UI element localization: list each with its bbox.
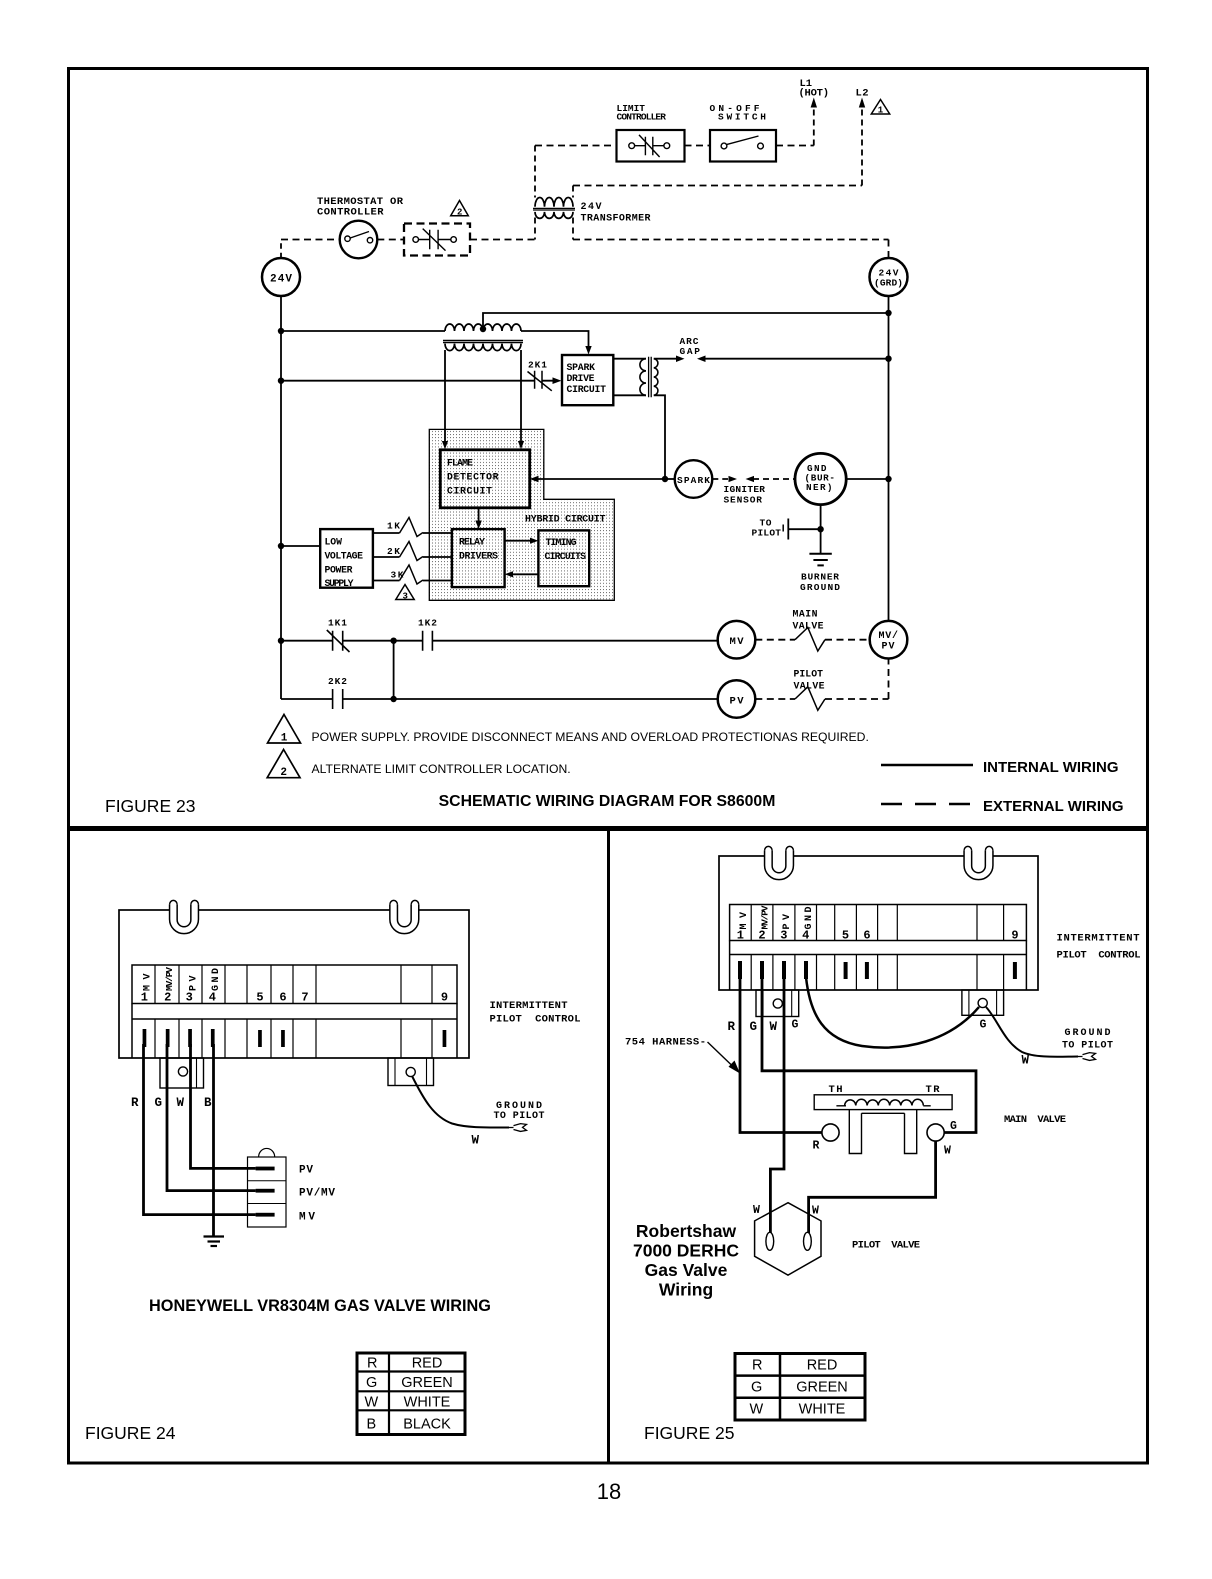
component: intermittent pilot control module body (fig25): [719, 856, 1038, 990]
wire: dashed horizontal L2 to transformer primary right: [573, 185, 862, 187]
wire: T2 secondary right drop into flame detector with arrow: [520, 350, 522, 443]
component: LIMIT CONTROLLER box with NC contact: [617, 130, 685, 162]
component: LOW VOLTAGE POWER SUPPLY box: [320, 529, 373, 588]
table: wire color legend (fig24): [357, 1353, 465, 1435]
svg-text:PILOT CONTROL: PILOT CONTROL: [490, 1014, 581, 1026]
wire: left rail to LV supply: [281, 545, 320, 547]
ground: burner ground symbol: [809, 553, 831, 555]
svg-text:FLAME: FLAME: [447, 458, 473, 469]
svg-text:PILOT VALVE: PILOT VALVE: [852, 1240, 920, 1252]
terminal: GND (BURNER) circle: [795, 453, 846, 504]
wire: 1K line LV supply to relay drivers: [373, 532, 452, 534]
svg-text:G: G: [155, 1096, 163, 1110]
wire: L2 lead dashed vertical with up arrow down to transformer line: [861, 105, 863, 186]
svg-text:7: 7: [301, 991, 308, 1005]
wire: arc gap right side to right rail: [697, 356, 706, 363]
node junction dot right rail top feed: [885, 310, 891, 316]
svg-text:WHITE: WHITE: [404, 1395, 451, 1411]
label MAIN VALVE: [793, 609, 824, 632]
wire: GND terminal4 curved lead to right foot (fig25): [806, 977, 979, 1048]
svg-text:PILOT: PILOT: [794, 669, 824, 680]
svg-text:FIGURE 24: FIGURE 24: [85, 1423, 176, 1443]
symbol: note triangle 1 bottom: [105, 715, 1124, 817]
svg-text:2: 2: [457, 208, 462, 218]
terminal: 24V circle: [262, 258, 300, 296]
component: FLAME DETECTOR CIRCUIT box: [440, 450, 529, 508]
svg-text:POWER: POWER: [325, 565, 353, 576]
svg-text:PV/MV: PV/MV: [299, 1188, 335, 1200]
component: RELAY DRIVERS box: [452, 529, 505, 587]
svg-text:3: 3: [403, 592, 408, 602]
wire: 2K1 row from left rail: [281, 380, 555, 382]
svg-text:9: 9: [1011, 929, 1018, 943]
svg-text:MAIN: MAIN: [793, 609, 818, 620]
wire: 3K line: [373, 580, 452, 582]
wire: dashed main valve to MV/PV: [825, 639, 870, 641]
component: relay contact 1K2 (NO): [423, 631, 433, 651]
svg-text:5: 5: [256, 991, 263, 1005]
svg-text:PV: PV: [730, 696, 745, 708]
svg-text:MV/PV: MV/PV: [759, 905, 770, 929]
component: right mounting foot with hole (fig24): [388, 1058, 434, 1086]
svg-text:W: W: [365, 1395, 379, 1411]
region: HYBRID CIRCUIT dotted area: [429, 429, 614, 600]
wire: L1 lead dashed vertical with up arrow: [813, 105, 815, 146]
wire: dashed MV to main valve coil: [755, 639, 795, 641]
terminal: MV circle: [718, 621, 756, 659]
svg-text:MAIN VALVE: MAIN VALVE: [1004, 1114, 1066, 1126]
component: right mounting foot with hole (fig25): [962, 990, 1004, 1015]
svg-text:INTERNAL WIRING: INTERNAL WIRING: [983, 759, 1119, 776]
wire: dashed thermostat row segments: [281, 239, 340, 241]
wire: T2 primary right to spark drive top with down arrow: [521, 331, 589, 349]
wire: dashed PV to pilot valve coil: [755, 698, 795, 700]
svg-text:9: 9: [441, 991, 448, 1005]
wire: left 24V rail: [280, 296, 282, 699]
frame: Figure 24 outer border: [69, 830, 609, 1464]
svg-text:1: 1: [141, 991, 148, 1005]
svg-text:2K: 2K: [387, 546, 400, 557]
svg-text:VOLTAGE: VOLTAGE: [325, 551, 364, 562]
svg-text:1K1: 1K1: [328, 618, 347, 629]
svg-text:G: G: [792, 1019, 799, 1032]
component: 24V transformer T1: [535, 198, 573, 207]
component: intermittent pilot control module body (fig24): [119, 910, 469, 1058]
svg-text:LOW: LOW: [325, 537, 343, 548]
ground: chassis ground symbol (fig24): [204, 1235, 225, 1237]
component: alternate limit controller dashed box with NC contact: [404, 224, 470, 256]
node junction dot MV/PV tie: [390, 638, 396, 644]
component: left mounting foot with hole (fig24): [160, 1058, 204, 1088]
symbol: 1K break zigzag: [400, 518, 424, 537]
component: TO PILOT stub: [788, 528, 820, 530]
svg-text:BURNER: BURNER: [801, 572, 839, 583]
wire: GND circle down to burner ground: [820, 505, 822, 554]
svg-text:B: B: [367, 1417, 377, 1433]
svg-text:R: R: [367, 1356, 377, 1372]
svg-text:G: G: [366, 1375, 377, 1391]
svg-text:CIRCUITS: CIRCUITS: [545, 551, 587, 562]
label THERMOSTAT OR CONTROLLER: [317, 196, 404, 219]
svg-text:DRIVERS: DRIVERS: [459, 551, 498, 562]
wire: tie between MV and PV rows: [393, 641, 395, 699]
wire: R red lead terminal1 to main valve R (fig25): [740, 979, 822, 1133]
svg-text:4: 4: [209, 991, 216, 1005]
terminal screw bars lower row (fig24): [143, 1029, 447, 1047]
svg-text:NER): NER): [806, 482, 833, 493]
wire: W white lead terminal3 to PV (fig24): [191, 1044, 256, 1168]
legend: internal wiring sample line: [881, 764, 973, 767]
wire: dashed between LIMIT CONTROLLER and ON-OFF SWITCH: [685, 145, 711, 147]
terminal dividers lower row (fig25): [751, 955, 1003, 991]
wire: dashed transformer secondary right down and right to 24V(GRD): [572, 218, 574, 240]
component: left mounting foot with hole (fig25): [756, 990, 799, 1017]
wire: T3 bottom lead down to spark electrode row: [654, 395, 665, 479]
symbol: 3K break zigzag: [400, 565, 424, 584]
svg-text:2K2: 2K2: [328, 676, 347, 687]
node L1 (HOT) label: [799, 78, 830, 100]
wire color letters R G W B (fig24): [131, 1096, 212, 1110]
svg-text:6: 6: [863, 929, 870, 943]
label LIMIT CONTROLLER: [617, 103, 667, 123]
svg-text:RED: RED: [807, 1358, 838, 1374]
component: left mounting tab (fig25): [765, 851, 794, 880]
svg-text:CIRCUIT: CIRCUIT: [447, 486, 492, 497]
wire: PV row from rail corner: [281, 698, 718, 700]
component: ignition transformer T2 primary: [445, 324, 521, 331]
component: thermostat contact circle: [340, 221, 378, 259]
svg-text:W: W: [812, 1205, 819, 1218]
symbol: pilot valve squiggle: [795, 687, 825, 711]
svg-text:TRANSFORMER: TRANSFORMER: [581, 214, 651, 225]
label TH TR: [829, 1084, 941, 1096]
svg-text:2K1: 2K1: [528, 360, 547, 371]
svg-text:3: 3: [186, 991, 193, 1005]
wire: dashed run transformer-top to LIMIT CONTROLLER: [535, 145, 617, 147]
svg-text:6: 6: [279, 991, 286, 1005]
label PILOT VALVE (fig25): [852, 1240, 920, 1252]
svg-text:CIRCUIT: CIRCUIT: [567, 384, 607, 395]
node T2 primary center tap dot: [480, 326, 486, 332]
label PILOT VALVE: [794, 669, 825, 692]
svg-text:G: G: [750, 1020, 758, 1034]
connector: spade terminal (fig24): [509, 1124, 527, 1132]
wire color letters R G W G (fig25): [728, 1019, 987, 1035]
wire: main valve W down to pilot valve right (fig25): [809, 1141, 936, 1233]
svg-text:GREEN: GREEN: [401, 1375, 453, 1391]
note text 2: [312, 762, 571, 776]
svg-text:DRIVE: DRIVE: [567, 373, 595, 384]
terminal labels rotated (fig25): [737, 905, 1019, 942]
terminal: main valve R circle (fig25): [822, 1124, 839, 1141]
caption: FIGURE 23: [105, 796, 195, 816]
component: left mounting tab (fig24): [170, 905, 199, 934]
terminal: SPARK circle: [665, 478, 675, 480]
svg-text:R: R: [813, 1140, 820, 1153]
svg-text:INTERMITTENT: INTERMITTENT: [490, 1000, 568, 1012]
svg-text:B: B: [204, 1096, 212, 1110]
pilot valve terminal ovals: [766, 1232, 774, 1250]
svg-text:3: 3: [780, 929, 787, 943]
wire: GND circle to right rail: [846, 478, 888, 480]
terminal labels rotated (fig24): [141, 967, 448, 1005]
component: SPARK DRIVE CIRCUIT box: [562, 355, 613, 405]
caption: FIGURE 24: [85, 1423, 176, 1443]
svg-text:HYBRID CIRCUIT: HYBRID CIRCUIT: [525, 515, 606, 526]
wire: dashed igniter-sensor gap with facing arrows: [712, 478, 728, 480]
svg-text:PV: PV: [299, 1165, 313, 1177]
component: main valve body with coil TH TR (fig25): [814, 1095, 952, 1110]
svg-text:EXTERNAL WIRING: EXTERNAL WIRING: [983, 798, 1124, 815]
wire: G green lead terminal2 to PV/MV (fig24): [167, 1044, 256, 1191]
label INTERMITTENT PILOT CONTROL (fig24): [490, 1000, 581, 1026]
svg-text:1: 1: [737, 929, 744, 943]
wire: 2K line: [373, 556, 452, 558]
terminal dividers upper row (fig24): [155, 965, 432, 1004]
symbol: note triangle 3: [396, 585, 414, 600]
wire: timing circuits back to relay drivers arrow: [512, 573, 539, 575]
svg-text:18: 18: [597, 1479, 621, 1504]
component: terminal strip upper row (fig24): [132, 965, 457, 1004]
terminal: main valve W/G circle (fig25): [927, 1124, 944, 1141]
wire: right foot ground-to-pilot curved lead (fig25): [986, 1007, 1078, 1057]
label ARC GAP: [680, 336, 701, 357]
svg-text:GAP: GAP: [680, 346, 701, 357]
svg-text:5: 5: [842, 929, 849, 943]
wire: center tap up and over to right rail: [483, 313, 889, 329]
svg-text:Robertshaw: Robertshaw: [636, 1221, 737, 1241]
symbol: 2K break zigzag: [400, 542, 424, 561]
frame: Figure 25 outer border: [609, 830, 1148, 1464]
symbol: note triangle 2 above alternate controller: [451, 201, 469, 216]
label GROUND TO PILOT (fig25): [1022, 1028, 1114, 1068]
wire: dashed 24V circle up to thermostat row: [280, 240, 282, 259]
svg-text:PV: PV: [882, 642, 895, 653]
svg-text:2: 2: [280, 767, 287, 779]
svg-text:1: 1: [281, 733, 288, 745]
component: terminal strip upper row (fig25): [730, 905, 1027, 941]
svg-text:HONEYWELL VR8304M GAS VALVE WI: HONEYWELL VR8304M GAS VALVE WIRING: [149, 1297, 491, 1315]
wire: G green lead terminal2 around to main valve G (fig25): [762, 979, 976, 1133]
terminal dividers upper row (fig25): [751, 905, 1003, 941]
svg-text:SUPPLY: SUPPLY: [325, 578, 354, 589]
svg-text:PILOT CONTROL: PILOT CONTROL: [1057, 950, 1141, 962]
connector: spade terminal (fig25): [1078, 1053, 1096, 1061]
svg-text:24V: 24V: [270, 274, 292, 286]
svg-text:W: W: [1022, 1054, 1030, 1068]
wire: T2 secondary left drop into flame detector with arrow: [444, 350, 446, 443]
component: T2 secondary: [445, 344, 521, 351]
svg-text:W: W: [944, 1145, 951, 1158]
svg-text:IGNITER: IGNITER: [724, 484, 766, 495]
label 754 HARNESS with arrow: [625, 1037, 706, 1049]
svg-text:TR: TR: [926, 1084, 941, 1096]
svg-text:4: 4: [802, 929, 809, 943]
wire: dashed vertical from top wire down to 24V transformer primary left: [534, 146, 536, 198]
svg-text:CONTROLLER: CONTROLLER: [317, 207, 384, 219]
svg-text:FIGURE 23: FIGURE 23: [105, 796, 195, 816]
svg-text:RED: RED: [412, 1356, 443, 1372]
node L2 label: [856, 88, 869, 100]
svg-text:2: 2: [758, 929, 765, 943]
component: spark step-up transformer T3: [613, 359, 646, 396]
node junction dot left rail / T2 primary: [278, 328, 284, 334]
caption: Robertshaw 7000 DERHC Gas Valve Wiring: [633, 1221, 739, 1300]
wire: right rail from 24V(GRD) to MV/PV: [888, 296, 890, 621]
component: gas valve terminal block (fig24): [248, 1157, 287, 1227]
component: relay contact 2K2 (NO): [333, 689, 343, 709]
component: main valve legs (fig25): [849, 1110, 916, 1154]
svg-text:INTERMITTENT: INTERMITTENT: [1057, 933, 1140, 945]
terminal: 24V (GRD) circle: [870, 258, 908, 296]
caption: HONEYWELL VR8304M GAS VALVE WIRING: [149, 1297, 491, 1315]
label INTERMITTENT PILOT CONTROL (fig25): [1057, 933, 1141, 962]
note text 1: [312, 730, 869, 744]
labels W W at pilot valve: [753, 1204, 819, 1218]
wire: R red lead terminal1 to MV (fig24): [144, 1044, 256, 1215]
component: T2 core: [443, 340, 523, 342]
svg-text:W: W: [753, 1204, 760, 1217]
label 24V TRANSFORMER: [581, 202, 651, 225]
svg-text:R: R: [728, 1020, 736, 1034]
svg-text:SCHEMATIC WIRING DIAGRAM FOR S: SCHEMATIC WIRING DIAGRAM FOR S8600M: [439, 793, 776, 810]
terminal screw bars lower row (fig25): [738, 961, 1017, 979]
wire: dashed transformer secondary left down to thermostat row: [534, 218, 536, 240]
frame: Figure 23 outer border: [69, 69, 1148, 828]
terminal: MV/PV circle: [870, 621, 908, 659]
legend: external wiring sample line: [881, 803, 974, 806]
labels PV PV/MV MV (fig24): [299, 1165, 335, 1224]
svg-text:TO PILOT: TO PILOT: [1062, 1041, 1113, 1052]
component: relay contact 1K1 (NC): [333, 631, 343, 651]
component: right mounting tab (fig24): [390, 905, 419, 934]
table: wire color legend (fig25): [735, 1354, 865, 1421]
svg-text:MV/PV: MV/PV: [164, 967, 175, 991]
wire: 24V rail to T2 primary left: [281, 330, 445, 332]
svg-text:W: W: [472, 1134, 480, 1148]
label IGNITER SENSOR: [724, 484, 766, 506]
svg-text:TH: TH: [829, 1084, 843, 1096]
wire: ground-to-pilot curved lead (fig24): [412, 1076, 509, 1128]
caption: FIGURE 25: [644, 1423, 734, 1443]
svg-text:SENSOR: SENSOR: [724, 495, 763, 506]
svg-text:1K2: 1K2: [418, 618, 437, 629]
svg-text:PILOT: PILOT: [752, 528, 782, 539]
terminal dividers lower row (fig24): [155, 1019, 432, 1058]
svg-text:Gas Valve: Gas Valve: [645, 1260, 728, 1280]
component: relay contact 2K1 (NC): [535, 371, 542, 389]
svg-text:W: W: [750, 1402, 764, 1418]
svg-text:GND: GND: [804, 907, 815, 930]
label MAIN VALVE (fig25): [1004, 1114, 1066, 1126]
svg-text:3K: 3K: [391, 570, 404, 581]
svg-text:R: R: [131, 1096, 139, 1110]
component: right mounting tab (fig25): [964, 851, 993, 880]
component: pilot valve hexagon (fig25): [755, 1203, 821, 1275]
svg-text:G: G: [950, 1120, 957, 1133]
svg-text:SPARK: SPARK: [567, 362, 596, 373]
wire: flame detector down-arrow to relay drivers: [478, 508, 480, 523]
symbol: note triangle 2 bottom: [267, 750, 300, 778]
svg-text:DETECTOR: DETECTOR: [447, 472, 499, 483]
wire: W white lead terminal3 to pilot valve left (fig25): [770, 979, 784, 1233]
svg-text:SPARK: SPARK: [677, 475, 710, 486]
symbol: warning triangle 1 beside L2: [871, 100, 889, 115]
svg-text:WHITE: WHITE: [799, 1402, 846, 1418]
svg-text:7000 DERHC: 7000 DERHC: [633, 1241, 739, 1261]
svg-text:W: W: [770, 1020, 778, 1034]
label ON-OFF SWITCH: [710, 103, 767, 123]
svg-text:1: 1: [878, 106, 884, 116]
svg-text:Wiring: Wiring: [659, 1280, 713, 1300]
wire: MV row from left rail: [281, 640, 718, 642]
terminal: PV circle: [718, 680, 756, 718]
svg-text:FIGURE 25: FIGURE 25: [644, 1423, 734, 1443]
svg-text:1K: 1K: [387, 521, 400, 532]
svg-text:24V: 24V: [581, 202, 602, 213]
wire channel lines (fig24): [132, 1004, 457, 1059]
caption: figure 23 title: [439, 793, 776, 810]
wire: B black lead terminal4 to ground (fig24): [212, 1044, 215, 1236]
component: ON-OFF SWITCH box: [710, 130, 776, 162]
svg-text:2: 2: [164, 991, 171, 1005]
svg-text:RELAY: RELAY: [459, 537, 485, 548]
wire: dashed ON-OFF SWITCH to L1 corner: [776, 145, 814, 147]
svg-text:MV/: MV/: [879, 630, 899, 642]
symbol: main valve squiggle: [795, 628, 825, 652]
svg-text:G: G: [980, 1019, 987, 1032]
svg-text:GROUND: GROUND: [800, 582, 840, 593]
svg-text:754 HARNESS-: 754 HARNESS-: [625, 1037, 706, 1049]
svg-text:POWER SUPPLY. PROVIDE DISCONNE: POWER SUPPLY. PROVIDE DISCONNECT MEANS A…: [312, 730, 869, 744]
svg-text:BLACK: BLACK: [403, 1417, 451, 1433]
svg-text:(GRD): (GRD): [874, 278, 903, 289]
svg-text:W: W: [177, 1096, 185, 1110]
svg-text:TIMING: TIMING: [546, 537, 577, 548]
svg-text:CONTROLLER: CONTROLLER: [617, 112, 667, 123]
svg-text:G: G: [751, 1380, 762, 1396]
wire: relay drivers to timing circuits arrow: [505, 540, 532, 542]
label GROUND TO PILOT (fig24): [472, 1101, 545, 1148]
component: TIMING CIRCUITS box: [538, 530, 589, 586]
svg-text:GND: GND: [211, 968, 222, 991]
wire: flame detector to spark junction with left arrow: [537, 478, 666, 480]
svg-text:TO PILOT: TO PILOT: [494, 1111, 545, 1122]
wire: T3 top to arc gap: [654, 358, 678, 360]
svg-text:R: R: [752, 1358, 762, 1374]
terminal bars PV / PV-MV / MV (fig24): [256, 1167, 275, 1217]
svg-text:MV: MV: [730, 636, 745, 648]
svg-text:ALTERNATE LIMIT CONTROLLER LOC: ALTERNATE LIMIT CONTROLLER LOCATION.: [312, 762, 571, 776]
svg-text:GREEN: GREEN: [796, 1380, 848, 1396]
wire: dashed pilot valve to MV/PV bottom: [825, 659, 889, 700]
wire channel lines (fig25): [730, 941, 1027, 991]
